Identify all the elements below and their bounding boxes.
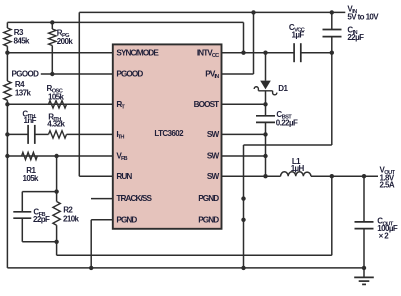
junction PGND right 2 bbox=[241, 218, 245, 222]
wire CFB bottom lead bbox=[21, 218, 23, 242]
svg-text:BOOST: BOOST bbox=[194, 100, 220, 109]
junction VIN CIN bbox=[330, 10, 334, 14]
wire ground bottom rail bbox=[7, 267, 364, 269]
junction left rail RT bbox=[5, 102, 9, 106]
svg-text:SW: SW bbox=[207, 130, 220, 139]
wire SW1 bbox=[222, 133, 266, 135]
wire PGND left bbox=[91, 219, 113, 221]
junction left rail VFB bbox=[5, 154, 9, 158]
wire RT bbox=[7, 103, 112, 105]
junction PGND left rail bbox=[89, 266, 93, 270]
junction BOOST CBST bbox=[263, 102, 267, 106]
label CITH bbox=[22, 109, 36, 125]
svg-text:TRACK/SS: TRACK/SS bbox=[116, 194, 152, 203]
resistor R3 bbox=[4, 28, 11, 46]
junction ground rail right bbox=[241, 266, 245, 270]
wire CVCC right lead bbox=[301, 52, 332, 54]
junction COUT ground bbox=[362, 266, 366, 270]
capacitor COUT bbox=[355, 222, 374, 229]
wire SYNC/MODE bbox=[7, 52, 112, 54]
wire CBST top lead bbox=[265, 104, 267, 116]
svg-text:× 2: × 2 bbox=[379, 231, 390, 240]
resistor RPG bbox=[49, 29, 56, 46]
op-amp U1 LTC3602 body bbox=[113, 44, 222, 228]
junction CVCC CIN bbox=[330, 51, 334, 55]
wire COUT top lead bbox=[363, 176, 365, 222]
wire D1 bottom lead bbox=[265, 91, 267, 105]
wire left rail top segment (R3 lead) bbox=[6, 22, 8, 28]
label RPG bbox=[57, 29, 74, 47]
wire left rail SYNC-R4 segment bbox=[6, 53, 8, 81]
resistor R1 bbox=[22, 152, 38, 159]
label COUT bbox=[377, 217, 398, 241]
wire right ground column bbox=[243, 145, 245, 268]
wire D1 top lead bbox=[265, 53, 267, 81]
wire RPG bottom lead to PGOOD bbox=[51, 46, 53, 75]
junction PGND right 1 bbox=[241, 196, 245, 200]
svg-text:22pF: 22pF bbox=[33, 215, 50, 224]
resistor ROSC bbox=[49, 101, 67, 108]
label L1 bbox=[291, 157, 305, 173]
capacitor CBST bbox=[256, 116, 275, 123]
wire PGOOD bbox=[41, 73, 113, 75]
label CFB bbox=[33, 207, 50, 224]
wire CFB/R2 top link bbox=[22, 191, 56, 193]
svg-text:PGND: PGND bbox=[198, 194, 219, 203]
wire CIN ground drop bbox=[331, 53, 333, 145]
svg-text:105k: 105k bbox=[23, 174, 40, 183]
label VOUT bbox=[380, 165, 396, 189]
wire CIN top lead bbox=[331, 12, 333, 29]
label PGOOD net bbox=[12, 70, 40, 79]
svg-text:PGND: PGND bbox=[198, 215, 219, 224]
junction CFB/R2 bottom bbox=[54, 240, 58, 244]
wire TRACK/SS stub bbox=[91, 198, 113, 200]
label R4 bbox=[15, 80, 32, 97]
svg-text:1µH: 1µH bbox=[291, 164, 305, 173]
wire left rail VFB-ground segment bbox=[6, 156, 8, 268]
wire SW column SW2-SW3 bbox=[265, 156, 267, 176]
label R3 bbox=[14, 28, 31, 46]
wire PGND left drop bbox=[90, 220, 92, 268]
label CBST bbox=[276, 110, 298, 128]
wire L1 to VOUT bbox=[311, 175, 378, 177]
label R1 bbox=[23, 166, 40, 183]
svg-text:R2: R2 bbox=[63, 206, 73, 215]
wire PVIN bbox=[222, 73, 254, 75]
svg-text:1µF: 1µF bbox=[292, 31, 305, 40]
svg-text:5V to 10V: 5V to 10V bbox=[347, 12, 379, 21]
wire INTVCC link drop bbox=[243, 22, 245, 52]
junction CFB/R2 top bbox=[54, 189, 58, 193]
wire ITH mid segment bbox=[35, 133, 49, 135]
resistor R4 bbox=[4, 81, 11, 100]
wire ground link bbox=[244, 144, 332, 146]
wire R2 top lead bbox=[56, 192, 58, 202]
wire BOOST bbox=[222, 103, 266, 105]
capacitor CVCC bbox=[294, 43, 301, 62]
label VIN bbox=[347, 5, 379, 22]
junction RPG top bbox=[50, 20, 54, 24]
wire CIN bottom lead bbox=[331, 37, 333, 53]
junction VFB node bbox=[54, 154, 58, 158]
label CIN bbox=[347, 25, 364, 42]
junction R3 bottom / SYNC bbox=[5, 51, 9, 55]
svg-text:PGND: PGND bbox=[116, 215, 137, 224]
junction INTVCC D1 bbox=[263, 51, 267, 55]
wire VFB junction drop bbox=[56, 156, 58, 192]
wire RUN bbox=[79, 175, 113, 177]
junction INTVCC link bbox=[241, 51, 245, 55]
wire SW2 bbox=[222, 155, 266, 157]
svg-text:PGOOD: PGOOD bbox=[12, 70, 40, 79]
wire left rail R3-SYNC segment bbox=[6, 46, 8, 53]
svg-text:22µF: 22µF bbox=[347, 33, 364, 42]
svg-text:SW: SW bbox=[207, 172, 220, 181]
capacitor CFB bbox=[13, 212, 31, 218]
capacitor CIN bbox=[323, 30, 342, 37]
junction PVIN rail bbox=[251, 10, 255, 14]
diode D1 bbox=[254, 81, 277, 95]
svg-text:200k: 200k bbox=[57, 37, 74, 46]
wire RPG top lead bbox=[51, 22, 53, 29]
svg-text:4.32k: 4.32k bbox=[47, 120, 65, 129]
wire R2 bottom lead bbox=[56, 225, 58, 242]
wire left rail R4-RT segment bbox=[6, 100, 8, 104]
wire SW3 to L1 bbox=[222, 175, 281, 177]
junction left rail ITH bbox=[5, 132, 9, 136]
svg-text:D1: D1 bbox=[278, 84, 288, 93]
label CVCC bbox=[289, 23, 305, 40]
svg-text:PGOOD: PGOOD bbox=[116, 70, 143, 79]
junction VOUT riser bbox=[330, 174, 334, 178]
wire VOUT sense rail bbox=[57, 254, 332, 256]
junction SW1 bbox=[263, 132, 267, 136]
wire CBST bottom lead bbox=[265, 122, 267, 134]
svg-text:LTC3602: LTC3602 bbox=[154, 129, 184, 138]
wire PVIN riser to VIN rail bbox=[253, 12, 255, 74]
svg-text:845k: 845k bbox=[14, 37, 31, 46]
junction SW2 bbox=[263, 154, 267, 158]
wire INTVCC link rail bbox=[7, 21, 243, 23]
inductor L1 bbox=[281, 172, 311, 176]
wire CFB top lead bbox=[21, 192, 23, 212]
wire left rail RT-ITH segment bbox=[6, 104, 8, 134]
wire CFB/R2 bottom link bbox=[22, 241, 56, 243]
label R2 bbox=[63, 206, 80, 224]
svg-text:0.22µF: 0.22µF bbox=[276, 119, 298, 128]
svg-text:137k: 137k bbox=[15, 88, 32, 97]
wire SW column SW1-SW2 bbox=[265, 134, 267, 156]
wire INTVCC bbox=[222, 52, 295, 54]
svg-text:1nF: 1nF bbox=[24, 116, 37, 125]
wire VOUT sense rail riser bbox=[331, 176, 333, 255]
svg-text:2.5A: 2.5A bbox=[380, 180, 395, 189]
label RITH bbox=[47, 113, 65, 129]
capacitor CITH bbox=[28, 125, 35, 144]
wire ITH left segment bbox=[7, 133, 28, 135]
wire VFB bbox=[7, 155, 112, 157]
svg-text:SYNC/MODE: SYNC/MODE bbox=[116, 48, 159, 57]
svg-text:SW: SW bbox=[207, 152, 220, 161]
svg-text:105k: 105k bbox=[48, 92, 65, 101]
resistor RITH bbox=[49, 131, 67, 138]
wire feedback drop to VOUT rail bbox=[56, 242, 58, 256]
wire left rail ITH-VFB segment bbox=[6, 134, 8, 156]
label D1 bbox=[278, 84, 288, 93]
junction VOUT COUT bbox=[362, 174, 366, 178]
resistor R2 bbox=[53, 202, 60, 226]
wire VIN top rail bbox=[79, 11, 345, 13]
junction SW3 bbox=[263, 174, 267, 178]
label ROSC bbox=[47, 84, 65, 101]
wire RUN vertical from VIN rail bbox=[78, 12, 80, 176]
wire ITH right segment bbox=[67, 133, 113, 135]
junction PGOOD / RPG bbox=[50, 72, 54, 76]
svg-text:RUN: RUN bbox=[116, 172, 132, 181]
wire COUT bottom lead bbox=[363, 229, 365, 268]
svg-text:210k: 210k bbox=[63, 215, 80, 224]
ground symbol bbox=[354, 268, 374, 285]
